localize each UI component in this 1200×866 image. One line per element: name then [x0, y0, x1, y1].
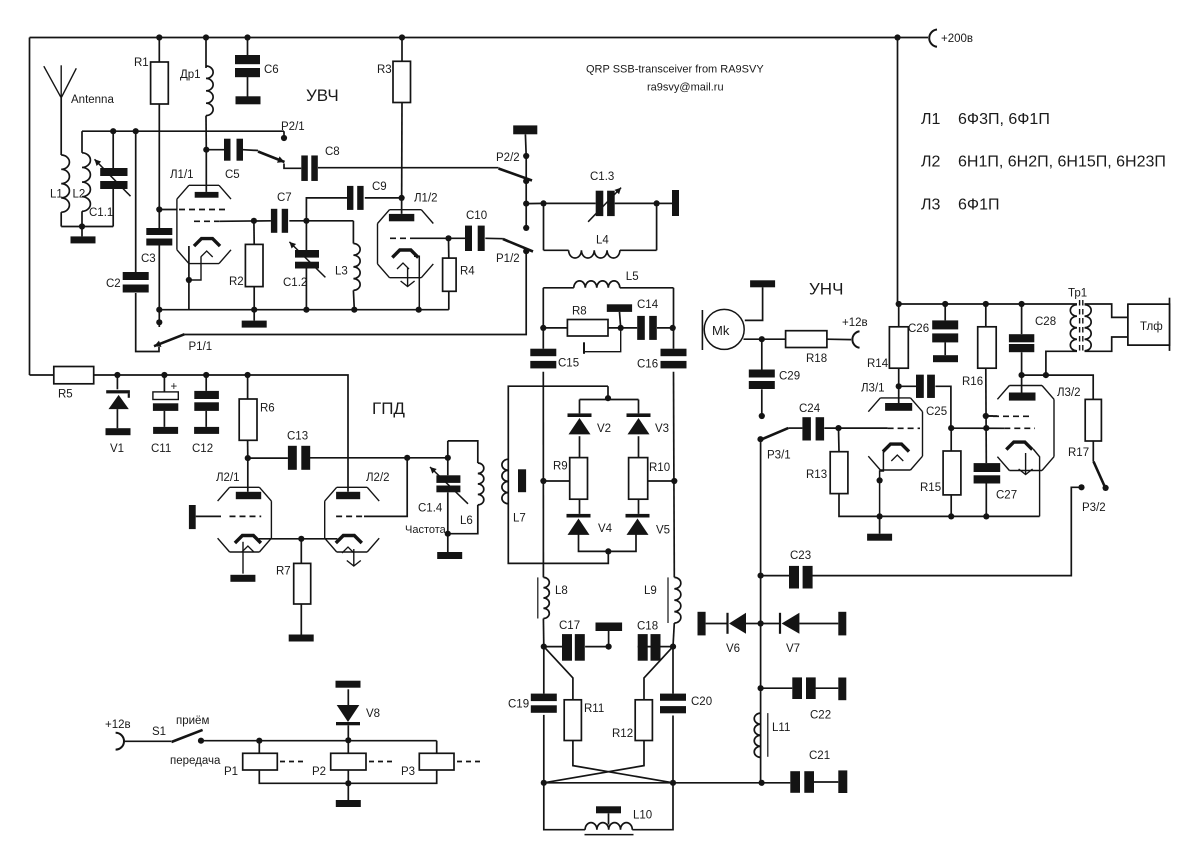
svg-text:R16: R16: [962, 376, 983, 388]
svg-text:Л3/2: Л3/2: [1057, 387, 1081, 399]
svg-text:L4: L4: [596, 234, 609, 246]
svg-text:передача: передача: [170, 755, 221, 767]
svg-text:+12в: +12в: [105, 719, 131, 731]
svg-text:R12: R12: [612, 728, 633, 740]
svg-text:Др1: Др1: [180, 69, 201, 81]
svg-text:V1: V1: [110, 443, 124, 455]
svg-text:L10: L10: [633, 810, 652, 822]
svg-text:R5: R5: [58, 389, 73, 401]
svg-text:L6: L6: [460, 515, 473, 527]
svg-text:P2: P2: [312, 766, 326, 778]
svg-text:Тр1: Тр1: [1068, 288, 1087, 300]
svg-text:P1/1: P1/1: [189, 341, 213, 353]
svg-text:V5: V5: [656, 525, 670, 537]
svg-text:C1.1: C1.1: [89, 207, 113, 219]
svg-text:R17: R17: [1068, 447, 1089, 459]
svg-text:C3: C3: [141, 253, 156, 265]
svg-text:C16: C16: [637, 359, 658, 371]
svg-text:L9: L9: [644, 585, 657, 597]
svg-text:L3: L3: [335, 266, 348, 278]
svg-text:Частота: Частота: [405, 524, 447, 536]
svg-text:P3: P3: [401, 766, 415, 778]
svg-text:C1.3: C1.3: [590, 171, 614, 183]
svg-text:R7: R7: [276, 566, 291, 578]
svg-text:R3: R3: [377, 64, 392, 76]
svg-text:R10: R10: [649, 462, 670, 474]
svg-text:C9: C9: [372, 181, 387, 193]
svg-text:C2: C2: [106, 278, 121, 290]
svg-text:Л3: Л3: [921, 197, 941, 214]
svg-text:Л2/1: Л2/1: [216, 472, 240, 484]
svg-text:QRP SSB-transceiver from RA9S: QRP SSB-transceiver from RA9SVY: [586, 64, 764, 76]
svg-text:P2/2: P2/2: [496, 152, 520, 164]
svg-text:C1.2: C1.2: [283, 277, 307, 289]
svg-text:C28: C28: [1035, 316, 1056, 328]
svg-text:P1: P1: [224, 766, 238, 778]
svg-text:C27: C27: [996, 490, 1017, 502]
svg-text:V7: V7: [786, 643, 800, 655]
svg-text:L8: L8: [555, 585, 568, 597]
svg-text:Тлф: Тлф: [1140, 321, 1163, 333]
svg-text:C11: C11: [151, 443, 171, 455]
svg-text:C12: C12: [192, 443, 213, 455]
svg-text:V4: V4: [598, 523, 613, 535]
svg-text:V3: V3: [655, 423, 669, 435]
svg-text:P2/1: P2/1: [281, 121, 305, 133]
svg-text:C1.4: C1.4: [418, 502, 443, 514]
svg-text:+12в: +12в: [842, 317, 868, 329]
svg-text:C29: C29: [779, 371, 800, 383]
svg-text:C10: C10: [466, 210, 487, 222]
svg-text:C8: C8: [325, 146, 340, 158]
svg-text:R9: R9: [553, 461, 568, 473]
svg-text:S1: S1: [152, 726, 166, 738]
svg-text:C17: C17: [559, 620, 580, 632]
svg-text:R1: R1: [134, 57, 149, 69]
svg-text:+: +: [171, 381, 178, 393]
svg-text:V8: V8: [366, 708, 380, 720]
svg-text:УНЧ: УНЧ: [809, 280, 843, 299]
svg-text:Л1/2: Л1/2: [414, 193, 438, 205]
svg-text:R4: R4: [460, 266, 475, 278]
svg-text:C23: C23: [790, 550, 811, 562]
svg-text:C19: C19: [508, 699, 529, 711]
svg-text:C5: C5: [225, 169, 240, 181]
svg-text:Mk: Mk: [712, 323, 730, 338]
svg-text:+200в: +200в: [941, 33, 973, 45]
svg-text:C6: C6: [264, 64, 279, 76]
svg-text:C22: C22: [810, 710, 831, 722]
svg-text:Л1: Л1: [921, 111, 941, 128]
svg-text:R18: R18: [806, 353, 827, 365]
svg-text:V2: V2: [597, 423, 611, 435]
svg-text:R11: R11: [584, 703, 604, 715]
svg-text:Л3/1: Л3/1: [861, 382, 885, 394]
svg-text:C26: C26: [908, 323, 929, 335]
svg-text:C20: C20: [691, 696, 712, 708]
svg-text:приём: приём: [176, 715, 209, 727]
svg-text:C25: C25: [926, 406, 947, 418]
svg-text:P1/2: P1/2: [496, 253, 520, 265]
svg-text:ra9svy@mail.ru: ra9svy@mail.ru: [647, 82, 724, 94]
svg-text:Antenna: Antenna: [71, 94, 114, 106]
svg-text:P3/1: P3/1: [767, 450, 791, 462]
svg-text:Л2: Л2: [921, 154, 941, 171]
svg-text:L7: L7: [513, 513, 526, 525]
svg-text:6Ф3П, 6Ф1П: 6Ф3П, 6Ф1П: [958, 111, 1050, 128]
svg-text:R2: R2: [229, 276, 244, 288]
svg-text:C18: C18: [637, 621, 658, 633]
svg-text:L11: L11: [772, 722, 790, 734]
svg-text:R6: R6: [260, 403, 275, 415]
svg-text:C15: C15: [558, 357, 579, 369]
svg-text:L2: L2: [73, 189, 86, 201]
svg-text:6Н1П, 6Н2П, 6Н15П, 6Н23П: 6Н1П, 6Н2П, 6Н15П, 6Н23П: [958, 154, 1166, 171]
svg-text:Л2/2: Л2/2: [366, 472, 390, 484]
svg-text:L5: L5: [626, 271, 639, 283]
svg-text:C7: C7: [277, 192, 292, 204]
svg-text:V6: V6: [726, 643, 740, 655]
svg-text:R14: R14: [867, 358, 889, 370]
svg-text:R13: R13: [806, 469, 827, 481]
svg-text:ГПД: ГПД: [372, 399, 405, 418]
svg-text:L1: L1: [50, 189, 63, 201]
svg-text:C14: C14: [637, 299, 659, 311]
svg-text:C21: C21: [809, 750, 830, 762]
svg-text:Л1/1: Л1/1: [170, 169, 194, 181]
svg-text:P3/2: P3/2: [1082, 502, 1106, 514]
svg-text:УВЧ: УВЧ: [306, 86, 339, 105]
svg-text:C13: C13: [287, 431, 308, 443]
svg-text:6Ф1П: 6Ф1П: [958, 197, 999, 214]
svg-text:R15: R15: [920, 482, 941, 494]
svg-text:C24: C24: [799, 403, 821, 415]
svg-text:R8: R8: [572, 305, 587, 317]
